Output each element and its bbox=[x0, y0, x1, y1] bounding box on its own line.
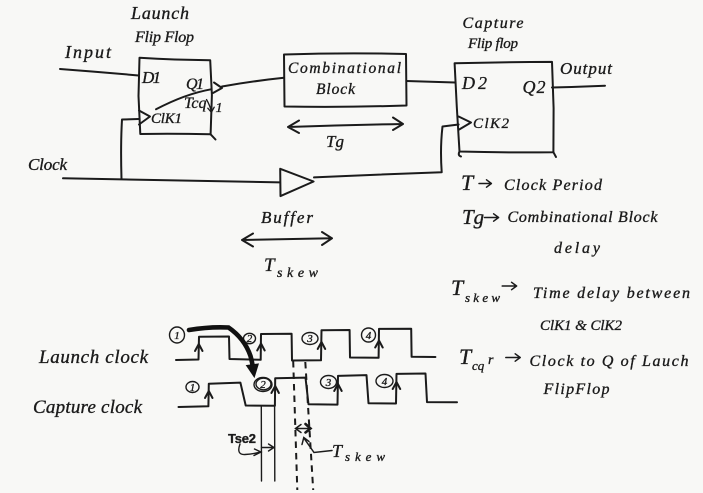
svg-text:ClK1 & ClK2: ClK1 & ClK2 bbox=[540, 318, 623, 334]
svg-text:Clock Period: Clock Period bbox=[504, 177, 603, 194]
svg-text:Combinational: Combinational bbox=[288, 60, 401, 77]
svg-text:3: 3 bbox=[325, 377, 332, 389]
svg-text:D2: D2 bbox=[461, 73, 487, 93]
svg-text:2: 2 bbox=[247, 333, 253, 345]
svg-text:Q2: Q2 bbox=[523, 77, 546, 97]
svg-text:2: 2 bbox=[260, 379, 266, 391]
svg-text:1: 1 bbox=[174, 330, 180, 342]
svg-text:Tse2: Tse2 bbox=[228, 431, 256, 446]
svg-text:Output: Output bbox=[560, 59, 613, 78]
svg-text:Q1: Q1 bbox=[186, 76, 204, 93]
svg-text:Time delay between: Time delay between bbox=[533, 285, 690, 302]
svg-text:Flip flop: Flip flop bbox=[467, 36, 519, 52]
svg-text:cq: cq bbox=[472, 358, 485, 373]
svg-text:4: 4 bbox=[382, 376, 388, 388]
svg-text:Buffer: Buffer bbox=[261, 208, 313, 227]
svg-text:FlipFlop: FlipFlop bbox=[543, 381, 610, 398]
svg-text:ClK1: ClK1 bbox=[151, 111, 182, 127]
svg-text:Tcq: Tcq bbox=[184, 95, 207, 112]
svg-text:Launch clock: Launch clock bbox=[38, 347, 149, 368]
svg-text:Clock: Clock bbox=[28, 155, 67, 174]
svg-text:1: 1 bbox=[216, 101, 223, 116]
svg-text:Capture: Capture bbox=[463, 15, 524, 32]
svg-text:1: 1 bbox=[190, 382, 196, 394]
svg-text:Combinational Block: Combinational Block bbox=[508, 209, 659, 226]
svg-text:Flip Flop: Flip Flop bbox=[134, 29, 194, 46]
svg-text:r: r bbox=[488, 353, 494, 368]
svg-text:Tg: Tg bbox=[326, 132, 344, 151]
svg-text:T: T bbox=[461, 170, 475, 195]
svg-text:Block: Block bbox=[316, 81, 356, 98]
svg-text:T: T bbox=[459, 344, 473, 369]
svg-text:D1: D1 bbox=[141, 68, 161, 87]
svg-text:4: 4 bbox=[366, 330, 372, 342]
svg-text:Clock to Q of Lauch: Clock to Q of Lauch bbox=[530, 353, 689, 370]
svg-text:3: 3 bbox=[306, 333, 313, 345]
svg-text:Tg: Tg bbox=[462, 205, 484, 229]
svg-text:Launch: Launch bbox=[130, 3, 189, 23]
svg-text:delay: delay bbox=[554, 240, 601, 257]
svg-text:T: T bbox=[264, 255, 276, 276]
svg-text:ClK2: ClK2 bbox=[473, 116, 510, 132]
svg-text:Capture clock: Capture clock bbox=[33, 397, 143, 418]
svg-text:T: T bbox=[451, 275, 465, 300]
